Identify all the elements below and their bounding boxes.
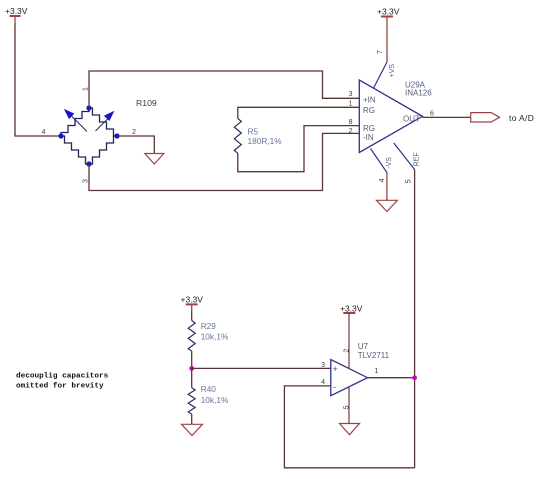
resistor R5 [234,119,241,154]
label U29A INA126 [405,81,432,98]
power +3.3V (R29 top) [181,295,204,312]
svg-text:-: - [333,382,336,392]
svg-text:RG: RG [363,124,375,133]
wire U29A REF down to U7 output node [414,170,416,468]
wire U7 output pin 1 to node [368,377,415,379]
svg-text:10k,1%: 10k,1% [201,395,229,405]
node bridge bottom [86,161,91,166]
ground (U7 pin 5) [340,424,360,435]
U7 pin 5 wire to ground [348,387,350,424]
wire R40 to ground [191,414,193,424]
svg-text:3: 3 [349,91,353,98]
wire bridge pin 1 to U29A +IN [89,71,359,108]
svg-text:R29: R29 [201,321,217,331]
strain arrow left [64,109,87,132]
power +3.3V (bridge excitation) [5,6,28,23]
svg-text:TLV2711: TLV2711 [358,351,390,360]
wire junction to U7 pin 3 [192,367,331,369]
op-amp U29A [359,80,422,153]
U29A pin 4 -VS [371,149,394,183]
svg-text:omitted for brevity: omitted for brevity [16,383,104,391]
svg-text:R40: R40 [201,384,217,394]
label R29 value 10k,1% [201,321,229,341]
svg-text:5: 5 [405,179,412,183]
svg-text:6: 6 [430,111,434,118]
svg-text:REF: REF [414,152,421,166]
U29A pin 7 +VS [374,50,396,88]
resistor R40 [188,388,195,414]
note decoupling text [16,372,109,390]
ground (R40) [182,424,203,435]
svg-text:OUT: OUT [403,114,420,123]
svg-text:180R,1%: 180R,1% [248,136,283,146]
strain arrow right [96,111,115,131]
wire +3.3V to bridge pin 4 [15,23,59,136]
wire +3.3V to R29 [191,311,193,321]
power +3.3V (U29A supply) [377,7,400,17]
svg-text:4: 4 [321,379,325,386]
svg-text:+VS: +VS [389,64,396,78]
wire bridge pin 3 to U29A -IN [89,133,359,190]
bridge R109 arm bottom-right [89,136,117,164]
svg-text:2: 2 [344,349,351,353]
svg-text:+IN: +IN [363,96,376,105]
svg-text:7: 7 [377,50,384,54]
bridge R109 arm bottom-left [61,136,89,164]
ground (bridge) [145,154,164,165]
svg-text:+3.3V: +3.3V [377,7,400,17]
node R29/R40 junction [189,366,194,371]
wire R5 bottom to U29A RG pin 8 [238,126,359,172]
op-amp U7 [331,360,368,396]
wire U29A output pin 6 [423,116,471,118]
power +3.3V (U7 supply) [340,303,363,313]
svg-text:2: 2 [132,129,136,136]
wire +3.3V to U29A pin 7 [386,17,388,63]
resistor R29 [188,321,195,352]
node bridge top [86,105,91,110]
svg-text:3: 3 [82,179,89,183]
wire U29A RG pin 1 to R5 top [238,107,359,118]
svg-text:2: 2 [349,128,353,135]
wire R29 to junction [191,351,193,368]
label U7 TLV2711 [358,342,390,360]
port to A/D [471,113,535,123]
U29A pin 5 REF [394,143,421,183]
svg-text:1: 1 [375,368,379,375]
bridge R109 arm top-left [61,108,89,136]
svg-text:RG: RG [363,106,375,115]
svg-text:5: 5 [344,405,351,409]
svg-text:1: 1 [349,101,353,108]
svg-text:-IN: -IN [363,133,374,142]
label R5 value 180R,1% [248,127,283,147]
svg-text:-VS: -VS [386,157,393,169]
svg-text:10k,1%: 10k,1% [201,332,229,342]
svg-text:to A/D: to A/D [509,113,534,123]
svg-text:decouplig capacitors: decouplig capacitors [16,372,109,380]
svg-text:4: 4 [42,129,46,136]
bridge R109 arm top-right [89,108,117,136]
svg-text:INA126: INA126 [405,89,432,98]
svg-text:3: 3 [321,362,325,369]
wire +3.3V to U7 pin 2 [348,313,350,368]
svg-text:R109: R109 [136,98,157,108]
svg-text:R5: R5 [248,127,259,137]
node bridge right [114,133,119,138]
wire junction to R40 [191,368,193,387]
node U7 output junction [412,375,417,380]
wire U7 feedback loop [284,386,414,468]
ground (U29A -VS) [376,200,397,211]
label R40 value 10k,1% [201,384,229,405]
svg-text:+3.3V: +3.3V [5,6,28,16]
node bridge left [58,133,63,138]
svg-text:+3.3V: +3.3V [181,295,204,305]
wire U29A pin 4 to ground [386,173,388,201]
svg-text:+3.3V: +3.3V [340,303,363,313]
wire bridge pin 2 to ground [118,136,155,154]
svg-text:+: + [333,364,338,374]
svg-text:U7: U7 [358,342,369,351]
svg-text:4: 4 [379,178,386,182]
svg-text:8: 8 [349,119,353,126]
